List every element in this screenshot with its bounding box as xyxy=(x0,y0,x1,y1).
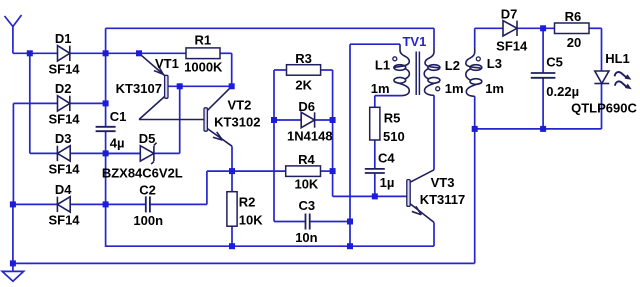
svg-text:4µ: 4µ xyxy=(110,135,125,150)
svg-text:VT3: VT3 xyxy=(431,175,455,190)
svg-text:D3: D3 xyxy=(55,131,72,146)
svg-text:D6: D6 xyxy=(298,99,315,114)
svg-text:SF14: SF14 xyxy=(48,112,80,127)
svg-text:R5: R5 xyxy=(384,111,401,126)
svg-text:20: 20 xyxy=(567,35,581,50)
svg-text:1000K: 1000K xyxy=(184,60,223,75)
svg-text:BZX84C6V2L: BZX84C6V2L xyxy=(102,165,183,180)
svg-text:VT2: VT2 xyxy=(227,98,251,113)
svg-text:C3: C3 xyxy=(298,198,315,213)
svg-text:510: 510 xyxy=(383,129,405,144)
svg-text:L1: L1 xyxy=(375,57,390,72)
svg-text:D5: D5 xyxy=(139,131,156,146)
svg-text:SF14: SF14 xyxy=(48,162,80,177)
svg-text:1m: 1m xyxy=(485,81,504,96)
svg-text:QTLP690C: QTLP690C xyxy=(571,101,637,116)
svg-text:KT3102: KT3102 xyxy=(214,114,260,129)
svg-text:VT1: VT1 xyxy=(155,56,179,71)
svg-text:TV1: TV1 xyxy=(402,34,426,49)
svg-text:C5: C5 xyxy=(546,55,563,70)
svg-text:R4: R4 xyxy=(298,152,315,167)
svg-text:SF14: SF14 xyxy=(48,62,80,77)
svg-text:L2: L2 xyxy=(445,58,460,73)
svg-text:10K: 10K xyxy=(239,213,263,228)
svg-text:R6: R6 xyxy=(565,9,582,24)
svg-text:0.22µ: 0.22µ xyxy=(546,84,579,99)
svg-text:1µ: 1µ xyxy=(380,175,395,190)
svg-text:R2: R2 xyxy=(239,195,256,210)
svg-text:D1: D1 xyxy=(55,31,72,46)
svg-text:HL1: HL1 xyxy=(605,51,630,66)
svg-text:L3: L3 xyxy=(487,56,502,71)
svg-text:D2: D2 xyxy=(55,81,72,96)
svg-text:KT3117: KT3117 xyxy=(420,192,466,207)
svg-text:D7: D7 xyxy=(501,7,518,22)
svg-text:10K: 10K xyxy=(294,177,318,192)
svg-text:2K: 2K xyxy=(295,78,312,93)
svg-text:SF14: SF14 xyxy=(496,39,528,54)
svg-text:D4: D4 xyxy=(55,182,72,197)
svg-text:100n: 100n xyxy=(133,213,163,228)
svg-text:R3: R3 xyxy=(295,51,312,66)
svg-text:C1: C1 xyxy=(110,109,127,124)
svg-text:C2: C2 xyxy=(139,182,156,197)
svg-text:1N4148: 1N4148 xyxy=(287,129,333,144)
svg-text:1m: 1m xyxy=(371,81,390,96)
svg-text:R1: R1 xyxy=(194,33,211,48)
svg-text:SF14: SF14 xyxy=(48,213,80,228)
svg-text:C4: C4 xyxy=(378,150,395,165)
svg-text:KT3107: KT3107 xyxy=(116,81,162,96)
svg-text:10n: 10n xyxy=(295,230,317,245)
svg-text:1m: 1m xyxy=(445,81,464,96)
